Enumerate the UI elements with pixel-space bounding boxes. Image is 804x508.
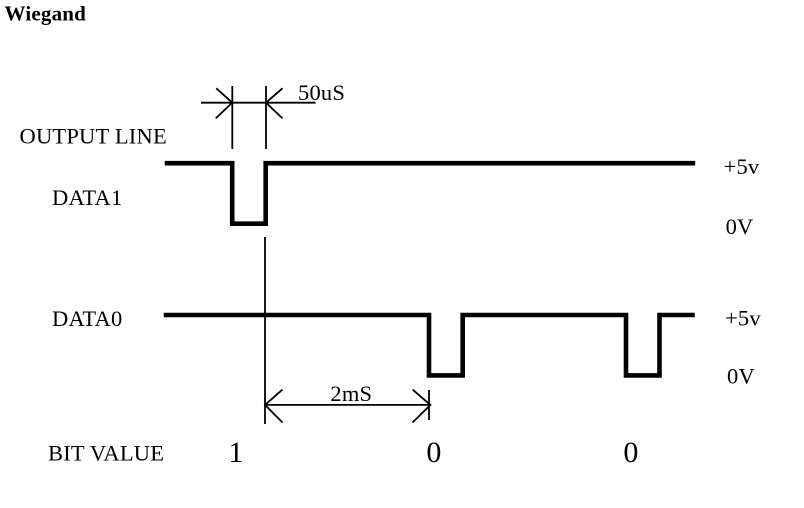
DATA1 waveform <box>165 163 696 224</box>
svg-text:0V: 0V <box>727 364 755 389</box>
svg-text:DATA1: DATA1 <box>52 185 122 210</box>
dimension 50uS: left-pointing arrowhead at right tick <box>266 88 283 118</box>
dimension 2mS: left-pointing arrowhead at left end <box>265 390 283 423</box>
svg-text:+5v: +5v <box>725 306 761 331</box>
svg-text:DATA0: DATA0 <box>52 306 122 331</box>
dimension 50uS: right-pointing arrowhead at left tick <box>216 88 233 118</box>
svg-text:0: 0 <box>623 436 638 469</box>
svg-text:OUTPUT LINE: OUTPUT LINE <box>20 124 167 149</box>
reference line from DATA1 pulse down to 2mS dimension <box>264 237 266 424</box>
dimension 2mS: tick at right end <box>428 390 430 420</box>
dimension 2mS: horizontal line <box>265 404 430 406</box>
DATA0 waveform <box>164 315 695 375</box>
dimension 50uS: horizontal line <box>201 102 316 104</box>
svg-text:0V: 0V <box>726 214 754 239</box>
svg-text:50uS: 50uS <box>298 80 345 105</box>
svg-text:0: 0 <box>426 436 441 469</box>
svg-text:BIT VALUE: BIT VALUE <box>48 441 164 466</box>
dimension 50uS: extension tick left <box>231 86 233 149</box>
svg-text:1: 1 <box>228 436 243 469</box>
dimension 50uS: extension tick right <box>265 86 267 149</box>
dimension 2mS: right-pointing arrowhead at right end <box>413 390 431 423</box>
svg-text:2mS: 2mS <box>330 381 372 406</box>
svg-text:+5v: +5v <box>724 154 760 179</box>
svg-text:Wiegand: Wiegand <box>5 1 87 25</box>
